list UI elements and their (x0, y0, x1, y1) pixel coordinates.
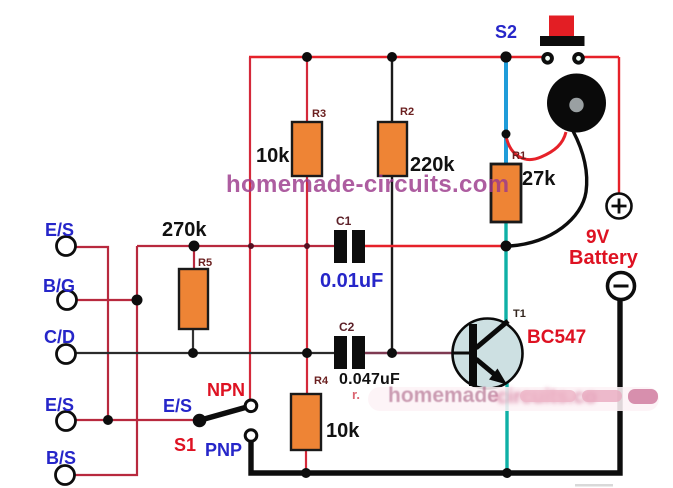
wire R2 top lead (391, 57, 393, 122)
svg-text:270k: 270k (162, 219, 207, 241)
junction selector cross (248, 243, 254, 249)
speaker LS1 (547, 74, 606, 133)
svg-text:R2: R2 (400, 106, 414, 118)
resistor R3 (292, 122, 322, 176)
transistor T1 (453, 319, 523, 389)
node B/G junction (132, 295, 143, 306)
svg-text:0.01uF: 0.01uF (320, 270, 383, 292)
resistor R2 (378, 122, 407, 176)
junction R3 column cross (304, 243, 310, 249)
wire R5 top lead (193, 246, 195, 269)
svg-text:R4: R4 (314, 375, 329, 387)
svg-text:Battery: Battery (569, 247, 639, 269)
wire R4 bottom lead (305, 450, 307, 472)
capacitor C2 (334, 336, 365, 369)
wire top +V rail (249, 56, 619, 59)
wire C/D line to C2 (74, 352, 334, 354)
svg-text:R1: R1 (512, 150, 526, 162)
wire R3 top lead (306, 57, 308, 122)
wire R2 bottom lead (391, 176, 393, 353)
battery minus terminal (608, 273, 635, 300)
svg-text:10k: 10k (256, 145, 290, 167)
wire B/G terminal lead (75, 299, 137, 301)
svg-text:NPN: NPN (207, 380, 245, 400)
wire battery plus lead (618, 57, 620, 193)
svg-text:B/G: B/G (43, 276, 75, 296)
resistor R1 (491, 164, 521, 222)
wire speaker black lead (510, 131, 587, 246)
svg-text:C/D: C/D (44, 327, 75, 347)
svg-text:R3: R3 (312, 108, 326, 120)
wire teal emitter to ground (505, 380, 508, 472)
terminal B/S (56, 466, 75, 485)
wire E/S top terminal to switch (74, 247, 108, 420)
wire R5 bottom lead (192, 329, 194, 353)
wire E/S bottom to switch pole (74, 419, 197, 421)
terminal C/D (57, 345, 76, 364)
svg-text:E/S: E/S (45, 220, 74, 240)
svg-text:C2: C2 (339, 320, 355, 334)
svg-text:S2: S2 (495, 22, 517, 42)
watermark blur strip (368, 384, 659, 411)
wire NPN selector vertical (249, 57, 251, 400)
wire B/S to B/G vertical (73, 246, 137, 475)
battery plus terminal (607, 194, 632, 219)
svg-text:10k: 10k (326, 420, 360, 442)
svg-text:E/S: E/S (45, 395, 74, 415)
svg-text:homemade: homemade (388, 384, 499, 407)
svg-text:S1: S1 (174, 435, 196, 455)
node C/D R4 column (302, 348, 312, 358)
capacitor C1 (334, 230, 365, 263)
node top R1 (500, 51, 511, 62)
svg-text:R5: R5 (198, 257, 212, 269)
wire C2 to transistor base (365, 352, 454, 355)
pushbutton S2 (540, 16, 585, 66)
svg-text:PNP: PNP (205, 440, 242, 460)
node C/D R2 column (387, 348, 397, 358)
node R5 bottom (188, 348, 198, 358)
wire R3-R4 column (306, 176, 308, 394)
svg-text:homemade-circuits.com: homemade-circuits.com (226, 171, 509, 198)
node switch line (103, 415, 113, 425)
svg-text:r.: r. (352, 387, 360, 402)
resistor R5 (179, 269, 208, 329)
node ground R4 (301, 468, 311, 478)
terminal E/S top (57, 237, 76, 256)
svg-text:27k: 27k (522, 168, 556, 190)
wire C1 to R1 node (365, 245, 506, 248)
terminal B/G (58, 291, 77, 310)
svg-text:9V: 9V (586, 227, 610, 248)
node ground emitter (502, 468, 512, 478)
wire blue R1 top (504, 57, 508, 164)
node top R3 (302, 52, 312, 62)
terminal E/S bottom (57, 412, 76, 431)
svg-text:C1: C1 (336, 214, 352, 228)
node R1 bottom (501, 241, 512, 252)
artifact gray dash bottom (575, 484, 613, 487)
svg-text:BC547: BC547 (527, 327, 586, 348)
svg-text:T1: T1 (513, 308, 526, 320)
svg-text:E/S: E/S (163, 396, 192, 416)
node 270k (189, 241, 200, 252)
svg-text:B/S: B/S (46, 448, 76, 468)
resistor R4 (291, 394, 321, 450)
node speaker tap (502, 130, 511, 139)
switch S1 (193, 400, 257, 441)
wire 270k node to C1 (137, 245, 334, 247)
wire ground rail black (251, 300, 620, 473)
wire speaker red lead (506, 132, 566, 159)
wire teal R1 bottom to collector (504, 222, 507, 330)
node top R2 (387, 52, 397, 62)
